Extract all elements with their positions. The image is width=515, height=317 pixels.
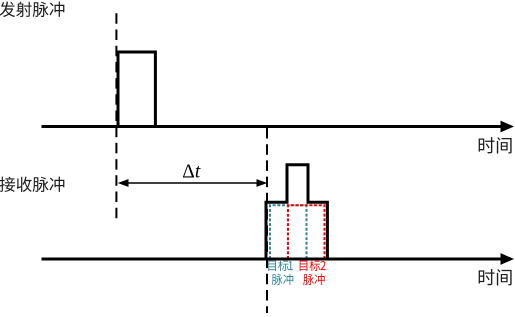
top time axis	[42, 125, 503, 128]
label 接收脉冲 (receive pulse)	[0, 177, 64, 192]
dashed reference line 1 (transmit pulse leading edge)	[115, 13, 117, 219]
received composite pulse waveform	[266, 165, 327, 260]
transmit pulse waveform	[118, 52, 155, 128]
label 发射脉冲 (transmit pulse)	[0, 2, 64, 17]
svg-text:Δt: Δt	[182, 161, 201, 182]
bottom time axis	[42, 258, 503, 261]
top axis arrowhead	[501, 121, 515, 133]
label 脉冲 (target 1 pulse)	[272, 274, 294, 285]
label 目标1 (target 1)	[268, 260, 293, 271]
label 时间 (time, bottom axis)	[479, 269, 512, 285]
target-2 echo extent (red dotted rect)	[288, 205, 325, 259]
bottom axis arrowhead	[501, 253, 515, 265]
Δt delay arrow (double-headed)	[126, 182, 259, 184]
label 脉冲 (target 2 pulse)	[303, 274, 325, 285]
dashed reference line 2 (echo arrival)	[266, 128, 268, 313]
label 目标2 (target 2)	[300, 260, 326, 271]
target-1 echo extent (teal dotted rect)	[270, 205, 307, 259]
label 时间 (time, top axis)	[479, 137, 512, 153]
